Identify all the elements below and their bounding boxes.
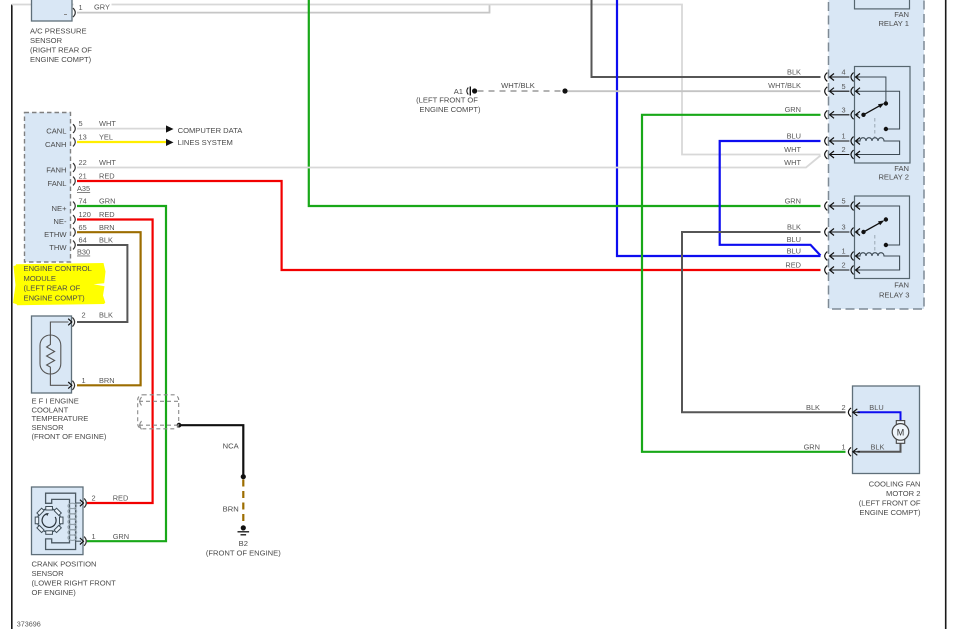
page border left bbox=[11, 5, 13, 629]
motor BLK internal wire bbox=[858, 443, 901, 452]
relay 3 pin 3 connector bbox=[825, 228, 860, 237]
svg-text:FAN: FAN bbox=[894, 281, 909, 290]
fan relay dashed container box bbox=[829, 0, 925, 309]
svg-text:ENGINE CONTROL: ENGINE CONTROL bbox=[24, 264, 92, 273]
wire RED NE- to crank position sensor pin 2 bbox=[77, 220, 153, 504]
svg-text:(FRONT OF ENGINE): (FRONT OF ENGINE) bbox=[32, 432, 107, 441]
wire BLK THW to EFI sensor pin 2 bbox=[77, 245, 127, 322]
svg-text:1: 1 bbox=[841, 442, 845, 451]
switch contacts bbox=[884, 101, 888, 105]
svg-text:74: 74 bbox=[79, 197, 87, 206]
svg-text:WHT: WHT bbox=[784, 145, 801, 154]
arrow computer data 1 bbox=[166, 125, 174, 132]
internal connection bottom bbox=[50, 374, 68, 385]
yellow highlight marker bbox=[13, 263, 106, 305]
coil bbox=[855, 253, 900, 270]
arrow computer data 2 bbox=[166, 139, 174, 146]
svg-text:ENGINE COMPT): ENGINE COMPT) bbox=[30, 55, 92, 64]
svg-text:ETHW: ETHW bbox=[44, 230, 67, 239]
ECM pin 120 NE- bbox=[73, 210, 115, 224]
wire GRN fan relay 2 pin 3 to cooling fan motor pin 1 bbox=[642, 115, 846, 452]
wire WHT CANL bbox=[77, 128, 166, 130]
svg-text:THW: THW bbox=[49, 243, 67, 252]
svg-text:GRN: GRN bbox=[785, 196, 801, 205]
svg-text:WHT: WHT bbox=[99, 119, 116, 128]
svg-text:B30: B30 bbox=[77, 248, 90, 257]
switch contacts bbox=[884, 217, 888, 221]
svg-text:CRANK POSITION: CRANK POSITION bbox=[32, 559, 97, 568]
svg-text:BLU: BLU bbox=[869, 403, 883, 412]
svg-text:RED: RED bbox=[785, 260, 801, 269]
svg-text:TEMPERATURE: TEMPERATURE bbox=[32, 414, 89, 423]
motor BLU internal wire bbox=[858, 412, 901, 421]
svg-text:SENSOR: SENSOR bbox=[32, 569, 65, 578]
wire WHT upper horizontal to relay 2 pin 2 bbox=[12, 5, 821, 155]
A/C pressure sensor bbox=[30, 0, 112, 64]
wire BRN dashed to ground bbox=[242, 480, 244, 525]
thermistor pill bbox=[40, 335, 61, 374]
svg-text:2: 2 bbox=[841, 403, 845, 412]
svg-text:GRY: GRY bbox=[94, 2, 110, 11]
svg-text:CANL: CANL bbox=[46, 126, 66, 135]
internal connection top bbox=[50, 322, 68, 336]
relay pin numbers bbox=[841, 68, 845, 270]
svg-text:1: 1 bbox=[82, 376, 86, 385]
svg-text:GRN: GRN bbox=[99, 197, 115, 206]
switch arm bbox=[864, 106, 881, 115]
svg-text:CANH: CANH bbox=[45, 140, 67, 149]
svg-text:BLK: BLK bbox=[99, 236, 113, 245]
ECM pin 64 THW bbox=[73, 236, 113, 250]
wire GRY from A/C pressure sensor pin 1 bbox=[77, 5, 490, 13]
svg-text:2: 2 bbox=[92, 494, 96, 503]
zigzag resistor bbox=[47, 336, 55, 375]
motor pin 2 connector bbox=[848, 408, 860, 417]
svg-text:B2: B2 bbox=[239, 539, 248, 548]
svg-text:BLK: BLK bbox=[787, 222, 801, 231]
ECM pin 5 CANL bbox=[73, 119, 116, 133]
A1 in-line connector bbox=[416, 81, 567, 114]
actuation dashed link bbox=[874, 118, 876, 138]
svg-text:YEL: YEL bbox=[99, 133, 113, 142]
svg-text:4: 4 bbox=[841, 68, 845, 77]
svg-text:13: 13 bbox=[79, 133, 87, 142]
svg-text:RELAY 3: RELAY 3 bbox=[879, 291, 910, 300]
svg-text:A35: A35 bbox=[77, 184, 90, 193]
svg-text:SENSOR: SENSOR bbox=[30, 36, 63, 45]
actuation dashed link bbox=[874, 235, 876, 252]
pin 1 bbox=[80, 538, 84, 545]
engine control module dashed box bbox=[25, 113, 71, 263]
svg-text:2: 2 bbox=[82, 311, 86, 320]
svg-text:NE+: NE+ bbox=[52, 204, 68, 213]
svg-text:GRN: GRN bbox=[113, 532, 129, 541]
wire NCA black bbox=[179, 425, 243, 477]
svg-text:BRN: BRN bbox=[223, 505, 239, 514]
svg-text:ENGINE COMPT): ENGINE COMPT) bbox=[859, 508, 921, 517]
svg-text:RELAY 2: RELAY 2 bbox=[878, 172, 909, 181]
svg-text:WHT: WHT bbox=[99, 158, 116, 167]
svg-text:120: 120 bbox=[79, 210, 91, 219]
relay 3 pin 1 connector bbox=[825, 252, 860, 261]
svg-text:BRN: BRN bbox=[99, 223, 115, 232]
svg-text:BRN: BRN bbox=[99, 376, 115, 385]
junction dot NCA/BRN bbox=[241, 474, 246, 479]
switch arm bbox=[864, 223, 881, 232]
relay 2 pin 3 connector bbox=[825, 110, 860, 119]
svg-text:FANL: FANL bbox=[48, 179, 67, 188]
svg-text:NCA: NCA bbox=[223, 442, 240, 451]
ECM pin 65 ETHW bbox=[73, 223, 115, 237]
svg-text:ENGINE COMPT): ENGINE COMPT) bbox=[419, 105, 481, 114]
svg-text:WHT/BLK: WHT/BLK bbox=[768, 81, 801, 90]
EFI engine coolant temperature sensor bbox=[32, 311, 115, 441]
svg-text:GRN: GRN bbox=[804, 442, 820, 451]
svg-text:(LEFT FRONT OF: (LEFT FRONT OF bbox=[416, 95, 478, 104]
svg-text:WHT: WHT bbox=[784, 158, 801, 167]
svg-text:373696: 373696 bbox=[17, 620, 41, 629]
page border right bbox=[945, 0, 947, 629]
svg-text:E F I ENGINE: E F I ENGINE bbox=[32, 397, 79, 406]
splice connector dashed box bbox=[138, 395, 179, 430]
relay 2 pin 5 connector bbox=[825, 87, 860, 96]
svg-text:(LOWER RIGHT FRONT: (LOWER RIGHT FRONT bbox=[32, 578, 117, 587]
svg-text:BLU: BLU bbox=[787, 235, 801, 244]
reluctor wheel bbox=[35, 507, 63, 535]
svg-text:WHT/BLK: WHT/BLK bbox=[501, 81, 535, 90]
wire BRN ETHW to EFI sensor pin 1 bbox=[77, 232, 141, 385]
svg-text:GRN: GRN bbox=[785, 105, 801, 114]
wire BLU vertical to fan relay 3 pin 1 bbox=[617, 0, 821, 256]
wire BLU fan relay 2 pin 1 to fan relay 3 pin 1 bbox=[720, 141, 821, 256]
wire YEL CANH bbox=[77, 141, 166, 143]
pin 4 internal bbox=[855, 77, 886, 104]
svg-text:BLU: BLU bbox=[787, 246, 801, 255]
wire BLK fan relay 3 pin 3 to cooling fan motor pin 2 bbox=[682, 232, 846, 412]
junction dot at splice bbox=[177, 423, 182, 428]
svg-text:(RIGHT REAR OF: (RIGHT REAR OF bbox=[30, 45, 92, 54]
svg-text:(LEFT REAR OF: (LEFT REAR OF bbox=[24, 284, 81, 293]
svg-text:3: 3 bbox=[841, 105, 845, 114]
svg-text:M: M bbox=[897, 427, 905, 437]
wire BLK vertical to fan relay 2 pin 4 bbox=[592, 0, 821, 77]
pin 1 bbox=[68, 382, 72, 389]
svg-text:5: 5 bbox=[79, 119, 83, 128]
svg-text:RED: RED bbox=[113, 494, 129, 503]
pin 2 bbox=[68, 319, 72, 326]
svg-text:SENSOR: SENSOR bbox=[32, 423, 65, 432]
fan relay 1 box bbox=[855, 0, 910, 28]
wire GRN NE+ to crank position sensor pin 1 bbox=[77, 206, 166, 541]
pin 5 internal bbox=[855, 206, 900, 245]
svg-text:22: 22 bbox=[79, 158, 87, 167]
svg-text:2: 2 bbox=[841, 145, 845, 154]
ECM pin 21 FANL bbox=[73, 172, 115, 186]
svg-text:NE-: NE- bbox=[53, 217, 67, 226]
fan relay 3 box bbox=[855, 196, 910, 300]
relay 3 pin 2 connector bbox=[825, 266, 860, 275]
relay 2 pin 4 connector bbox=[825, 73, 860, 82]
pin stub wires bbox=[76, 502, 81, 504]
wire RED FANL to fan relay 3 pin 2 bbox=[77, 181, 821, 270]
svg-text:LINES SYSTEM: LINES SYSTEM bbox=[178, 138, 233, 147]
ECM pin 74 NE+ bbox=[73, 197, 115, 211]
svg-text:(FRONT OF ENGINE): (FRONT OF ENGINE) bbox=[206, 549, 281, 558]
svg-text:FANH: FANH bbox=[46, 165, 66, 174]
svg-text:COOLANT: COOLANT bbox=[32, 405, 69, 414]
relay 2 pin 2 connector bbox=[825, 150, 860, 159]
svg-text:MOTOR 2: MOTOR 2 bbox=[886, 489, 920, 498]
svg-text:1: 1 bbox=[841, 247, 845, 256]
motor pin 1 connector bbox=[848, 447, 860, 456]
fan relay 2 box bbox=[855, 67, 911, 182]
svg-text:BLK: BLK bbox=[806, 403, 820, 412]
svg-text:RED: RED bbox=[99, 172, 115, 181]
sensor core bbox=[46, 493, 76, 549]
motor symbol bbox=[896, 421, 904, 425]
svg-text:(LEFT FRONT OF: (LEFT FRONT OF bbox=[859, 498, 921, 507]
ECM name text bbox=[24, 264, 92, 302]
svg-text:RED: RED bbox=[99, 210, 115, 219]
svg-text:COMPUTER DATA: COMPUTER DATA bbox=[178, 126, 244, 135]
svg-text:RELAY 1: RELAY 1 bbox=[878, 19, 909, 28]
svg-text:ENGINE COMPT): ENGINE COMPT) bbox=[24, 293, 86, 302]
svg-text:3: 3 bbox=[841, 223, 845, 232]
svg-text:A/C PRESSURE: A/C PRESSURE bbox=[30, 27, 87, 36]
svg-text:1: 1 bbox=[92, 532, 96, 541]
svg-text:COOLING FAN: COOLING FAN bbox=[869, 479, 921, 488]
svg-text:21: 21 bbox=[79, 172, 87, 181]
svg-text:64: 64 bbox=[79, 236, 87, 245]
svg-text:MODULE: MODULE bbox=[24, 274, 57, 283]
svg-text:BLK: BLK bbox=[871, 442, 885, 451]
pin 2 bbox=[80, 500, 84, 507]
svg-text:BLK: BLK bbox=[787, 68, 801, 77]
svg-text:5: 5 bbox=[841, 82, 845, 91]
svg-text:1: 1 bbox=[79, 3, 83, 12]
wire WHT FANH long horizontal to relay 2 pin 2 bbox=[77, 156, 821, 168]
coil bbox=[855, 138, 900, 155]
wire WHT/BLK solid segment to fan relay 2 pin 5 bbox=[565, 90, 821, 92]
svg-text:2: 2 bbox=[841, 261, 845, 270]
relay 2 pin 1 connector bbox=[825, 137, 860, 146]
ECM pin 13 CANH bbox=[73, 133, 113, 147]
relay wire labels bbox=[768, 68, 801, 270]
svg-text:5: 5 bbox=[841, 197, 845, 206]
ground B2 bbox=[206, 525, 281, 557]
coil winding bbox=[68, 503, 77, 540]
wire GRN vertical from top to fan relay 3 pin 5 bbox=[309, 0, 821, 206]
pin 5 internal bbox=[855, 91, 900, 129]
cooling fan motor 2 bbox=[804, 386, 921, 517]
svg-text:OF ENGINE): OF ENGINE) bbox=[32, 588, 77, 597]
crank position sensor bbox=[32, 487, 130, 597]
svg-text:1: 1 bbox=[841, 132, 845, 141]
svg-text:BLU: BLU bbox=[787, 131, 801, 140]
svg-text:BLK: BLK bbox=[99, 311, 113, 320]
svg-text:65: 65 bbox=[79, 223, 87, 232]
relay 3 pin 5 connector bbox=[825, 202, 860, 211]
ECM pin 22 FANH bbox=[73, 158, 116, 172]
